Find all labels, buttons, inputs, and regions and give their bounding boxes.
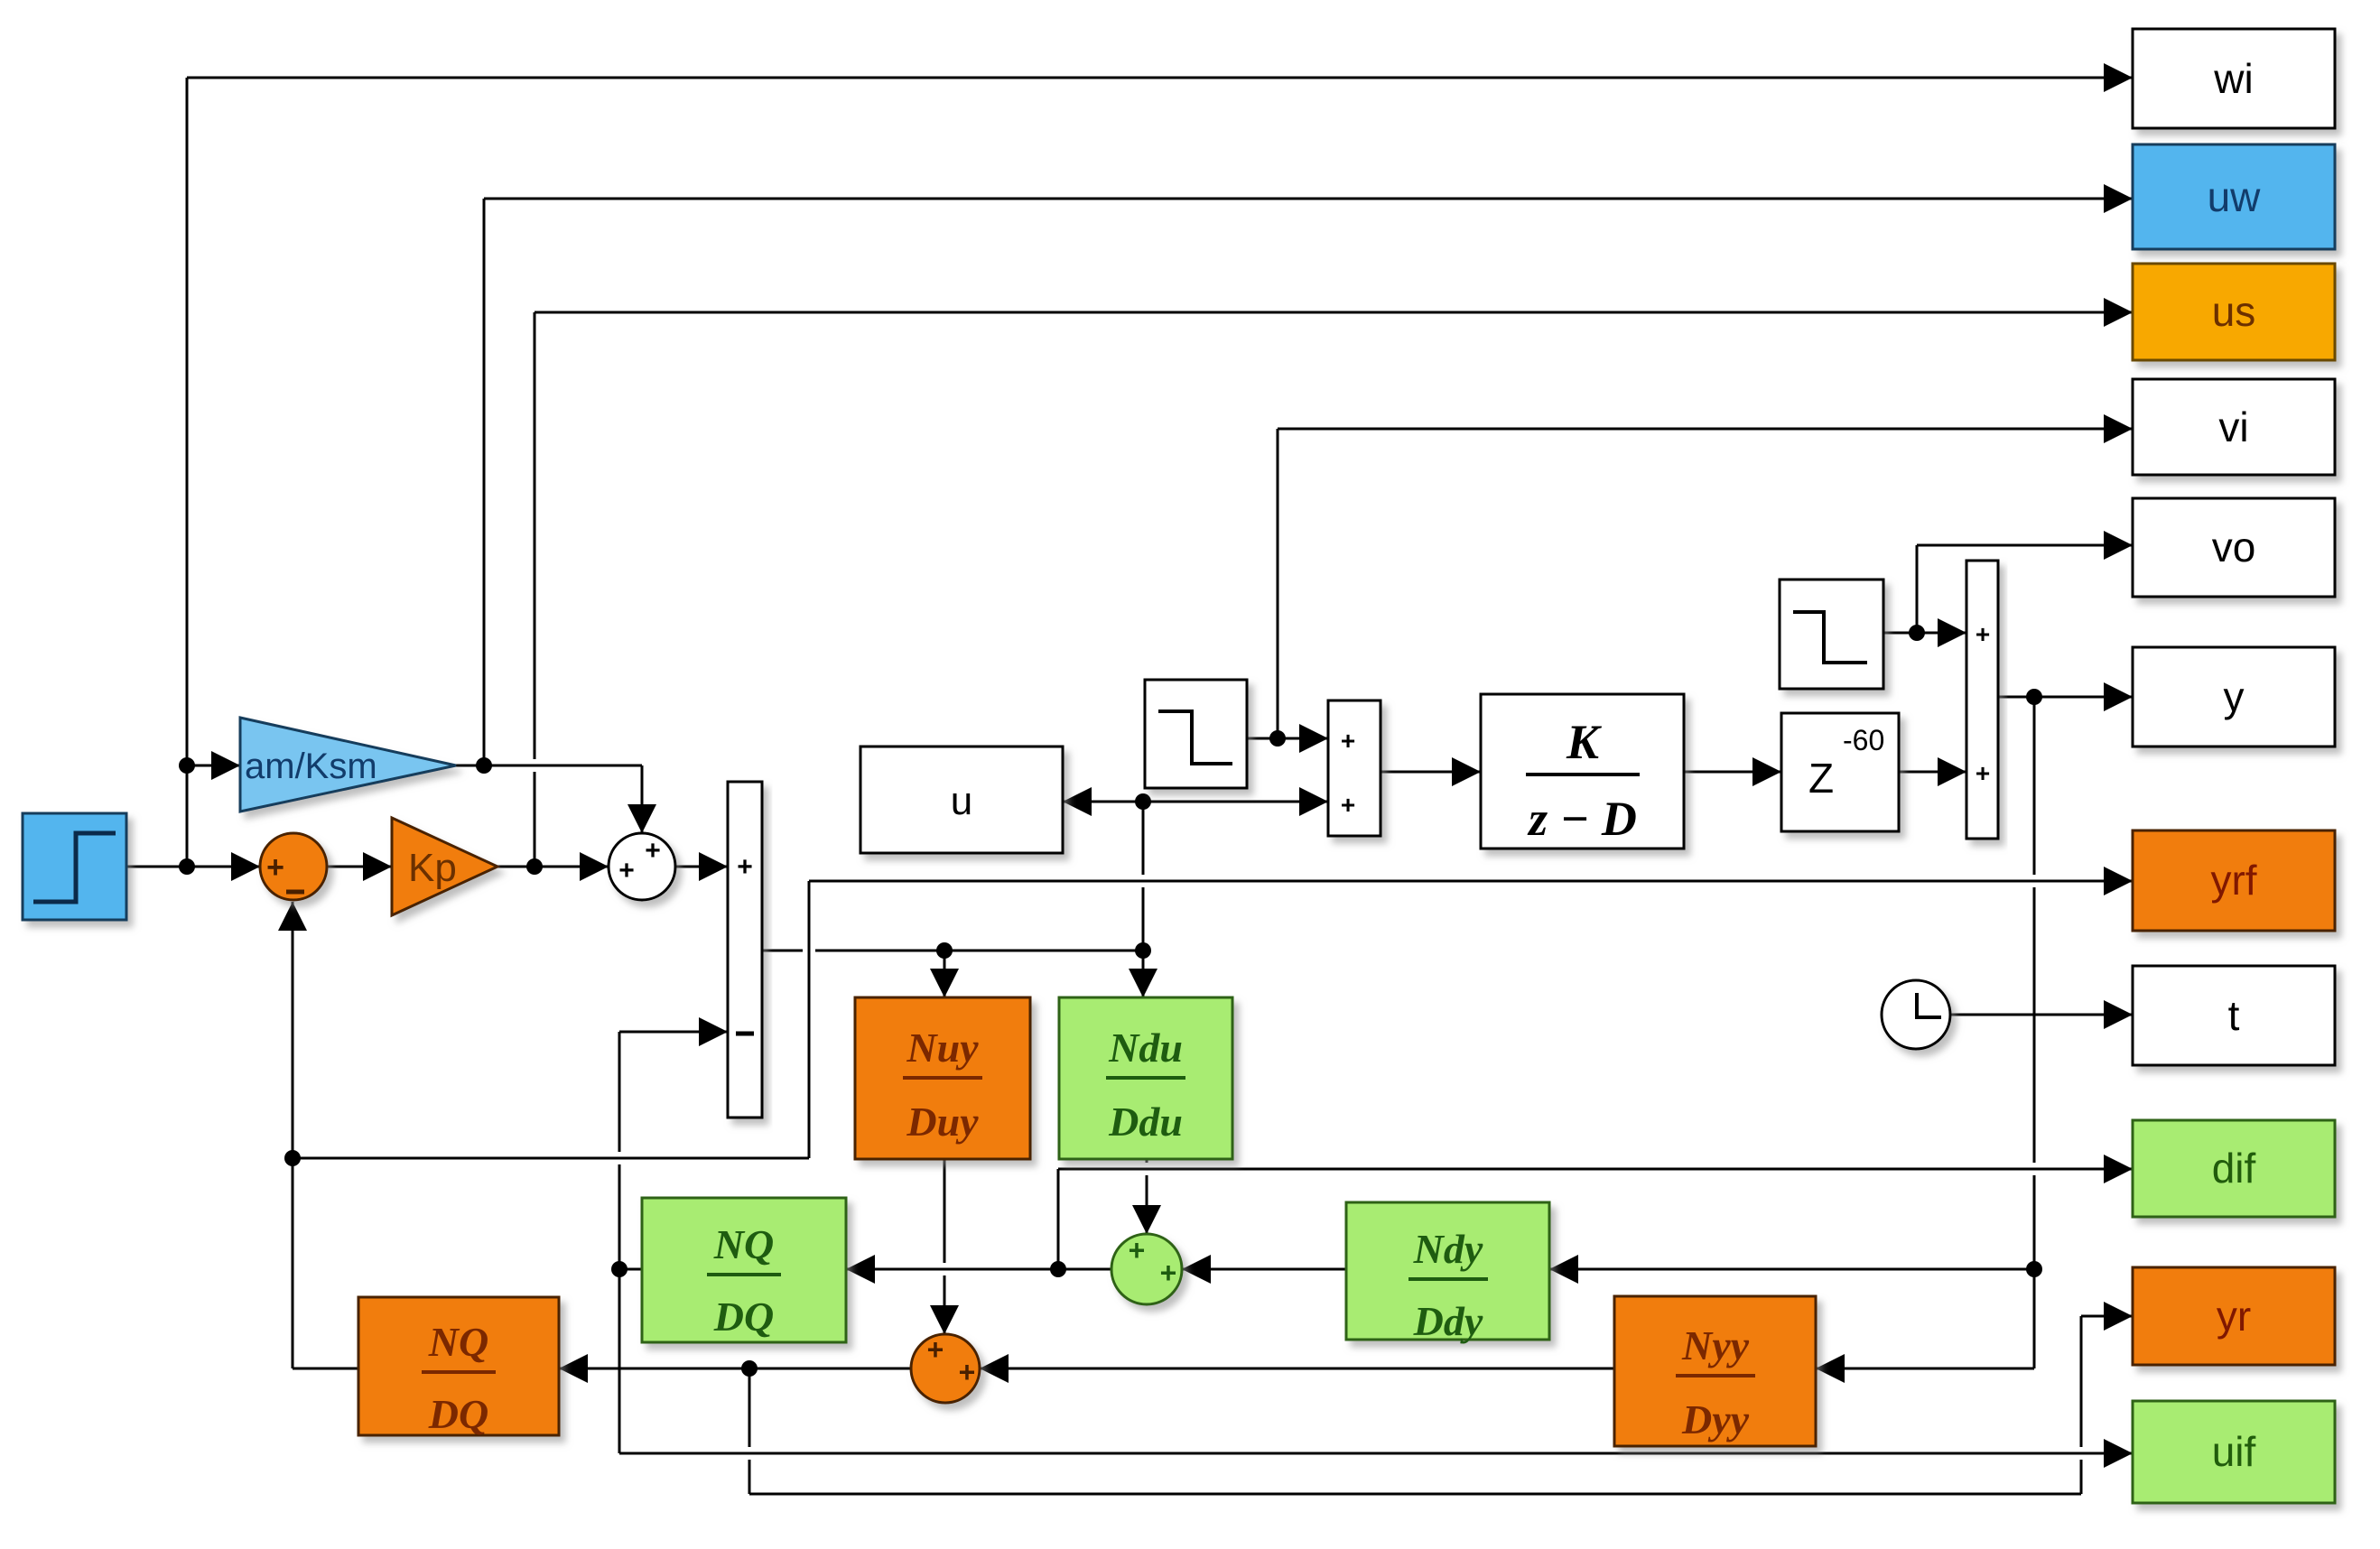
svg-text:Ddu: Ddu <box>1108 1099 1183 1145</box>
sum S5 orange <box>911 1333 980 1403</box>
svg-text:+: + <box>1341 727 1355 755</box>
svg-text:Dyy: Dyy <box>1681 1396 1750 1442</box>
wire sum1 to Kp <box>327 852 392 881</box>
wire y to Ndy input <box>1549 1255 2034 1284</box>
svg-text:u: u <box>951 779 972 823</box>
svg-text:Ddy: Ddy <box>1413 1298 1483 1344</box>
wire us tap vertical <box>534 312 536 867</box>
svg-text:+: + <box>618 856 635 886</box>
wire into yr box <box>2081 1302 2133 1331</box>
wire Ndy out to green sum <box>1182 1255 1346 1284</box>
svg-text:yr: yr <box>2217 1293 2251 1340</box>
wire Add1 minus input <box>619 1017 728 1046</box>
step source <box>23 813 126 920</box>
node Ndy feed junction <box>2026 1261 2042 1277</box>
wire dif tap riser <box>1057 1169 1060 1269</box>
wire uw line <box>484 184 2133 213</box>
delay z-60 <box>1781 713 1899 831</box>
add block Add1 <box>728 782 762 1118</box>
sum S2 <box>609 833 675 900</box>
svg-text:vi: vi <box>2218 403 2248 450</box>
wire u to sum3 <box>1143 787 1328 816</box>
node yr tap junction <box>741 1360 758 1377</box>
svg-text:dif: dif <box>2212 1145 2256 1192</box>
filter Ndu/Ddu <box>1059 997 1232 1159</box>
svg-text:Kp: Kp <box>408 846 457 890</box>
wire Kp to sum2 <box>497 852 609 881</box>
wire Ndu input drop <box>1129 951 1157 997</box>
filter NQ/DQ orange <box>358 1297 559 1437</box>
scope t <box>2133 966 2335 1065</box>
wire Add1 output u <box>762 950 1143 952</box>
wire am/Ksm output <box>456 765 642 767</box>
svg-text:DQ: DQ <box>428 1391 488 1437</box>
sum S4 green <box>1111 1234 1182 1304</box>
node sum1 feedback junction <box>284 1150 301 1166</box>
wire Q feedback vertical <box>618 1032 621 1453</box>
node Q feedback junction <box>611 1261 628 1277</box>
wire sum2 to Add1 <box>675 852 728 881</box>
wire reference tap vertical <box>186 78 189 867</box>
svg-text:+: + <box>266 850 284 885</box>
transfer fcn K/(z-D) <box>1481 694 1684 849</box>
wire dif line <box>1058 1155 2133 1183</box>
wire us line <box>535 298 2133 327</box>
svg-text:am/Ksm: am/Ksm <box>245 747 377 786</box>
svg-text:+: + <box>1341 791 1355 819</box>
svg-text:uif: uif <box>2212 1428 2256 1475</box>
filter NQ/DQ green <box>642 1198 846 1342</box>
svg-text:NQ: NQ <box>428 1319 488 1365</box>
svg-text:+: + <box>959 1356 976 1388</box>
wire yr line <box>749 1493 2081 1496</box>
wire y to Nyy input <box>1816 1354 2034 1383</box>
wire Ndu output drop <box>1132 1159 1161 1234</box>
scope uif <box>2133 1401 2335 1503</box>
node am/Ksm input tap <box>179 757 195 774</box>
node y feedback junction <box>2026 689 2042 705</box>
node vi tap junction <box>1269 730 1286 747</box>
svg-text:+: + <box>645 836 661 866</box>
scope wi <box>2133 29 2335 128</box>
wire yrf line <box>809 867 2133 895</box>
svg-text:+: + <box>1129 1234 1146 1266</box>
node uw tap junction <box>476 757 492 774</box>
sum S3 <box>1328 700 1381 836</box>
gain am/Ksm <box>240 718 456 812</box>
wire NQo output to riser <box>293 1368 358 1370</box>
wire sum1 feedback riser <box>278 902 307 1368</box>
node us tap junction <box>526 858 543 875</box>
clock <box>1882 980 1950 1049</box>
svg-text:Nuy: Nuy <box>906 1025 979 1071</box>
node dif tap junction <box>1050 1261 1066 1277</box>
wire wi line <box>187 63 2133 92</box>
svg-text:Z: Z <box>1808 755 1834 802</box>
svg-text:+: + <box>1976 759 1990 787</box>
svg-text:wi: wi <box>2213 55 2253 102</box>
wire sum2 top input drop <box>628 765 656 833</box>
wire vi tap vertical <box>1277 429 1279 738</box>
wire vi line <box>1278 414 2133 443</box>
step source d1 <box>1145 680 1247 788</box>
wire into u scope <box>1063 787 1143 816</box>
svg-text:Nyy: Nyy <box>1681 1322 1750 1368</box>
wire step to sum1 <box>126 852 260 881</box>
wire Nuy input drop <box>930 951 959 997</box>
node step output junction <box>179 858 195 875</box>
wire delay to Add2 <box>1899 757 1966 786</box>
wire yrf riser <box>808 881 811 1158</box>
filter Ndy/Ddy <box>1346 1202 1549 1344</box>
scope dif <box>2133 1120 2335 1217</box>
wire y feedback vertical <box>2033 697 2036 1368</box>
scope yrf <box>2133 830 2335 931</box>
scope y <box>2133 647 2335 747</box>
wire Nyy out to orange sum <box>980 1354 1614 1383</box>
wire Add2 output y <box>1998 682 2133 711</box>
gain Kp <box>392 818 497 915</box>
svg-text:-60: -60 <box>1843 724 1884 756</box>
node vo tap junction <box>1909 625 1925 641</box>
svg-text:DQ: DQ <box>713 1294 774 1340</box>
scope us <box>2133 264 2335 360</box>
wire vo line <box>1917 531 2133 560</box>
wire to am/Ksm input <box>187 751 240 780</box>
svg-text:us: us <box>2212 288 2256 335</box>
wire u tap vertical <box>1142 802 1145 951</box>
filter Nuy/Duy <box>855 997 1030 1159</box>
filter Nyy/Dyy <box>1614 1296 1816 1446</box>
svg-text:yrf: yrf <box>2210 857 2256 904</box>
wire disturbance2 to Add2 <box>1883 618 1966 647</box>
svg-text:+: + <box>1160 1257 1177 1289</box>
wire uif line <box>619 1439 2133 1468</box>
wire clock to t <box>1950 1000 2133 1029</box>
svg-text:y: y <box>2224 673 2245 720</box>
svg-text:vo: vo <box>2212 524 2256 570</box>
wire NQg output <box>619 1268 642 1271</box>
svg-text:+: + <box>1976 620 1990 648</box>
wire yr drop <box>748 1368 751 1494</box>
node Ndu feed junction <box>1135 942 1151 959</box>
wire green sum out to NQg <box>846 1255 1111 1284</box>
svg-text:+: + <box>927 1333 944 1366</box>
wire uw tap vertical <box>483 199 486 765</box>
scope vo <box>2133 498 2335 597</box>
scope uw <box>2133 144 2335 249</box>
svg-text:K: K <box>1566 715 1603 769</box>
svg-text:NQ: NQ <box>713 1221 774 1267</box>
svg-text:uw: uw <box>2208 173 2262 220</box>
svg-text:Ndu: Ndu <box>1108 1025 1183 1071</box>
scope u <box>860 747 1063 853</box>
wire sum1 feedback line <box>293 1157 809 1160</box>
scope vi <box>2133 379 2335 475</box>
add block Add2 <box>1966 561 1998 839</box>
wire K block to delay <box>1684 757 1781 786</box>
sum S1 <box>260 833 327 900</box>
svg-text:+: + <box>737 852 753 882</box>
wire Nuy output drop <box>930 1159 959 1334</box>
wire sum3 to K block <box>1381 757 1481 786</box>
svg-text:Ndy: Ndy <box>1413 1226 1483 1272</box>
node u junction <box>1135 793 1151 810</box>
node Nuy feed junction <box>936 942 953 959</box>
step source d2 <box>1780 580 1883 689</box>
wire orange sum out to NQo <box>358 1354 911 1383</box>
wire yr riser <box>2080 1316 2083 1494</box>
svg-text:z − D: z − D <box>1527 792 1637 846</box>
svg-text:Duy: Duy <box>906 1099 979 1145</box>
scope yr <box>2133 1267 2335 1365</box>
wire disturbance1 to sum3 <box>1247 724 1328 753</box>
svg-text:t: t <box>2228 992 2240 1039</box>
wire vo tap vertical <box>1916 545 1919 633</box>
